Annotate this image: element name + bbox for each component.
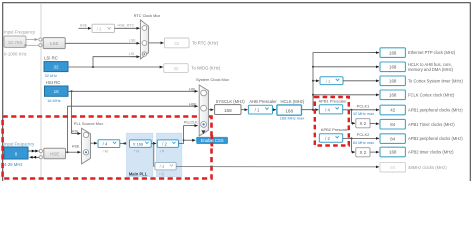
svg-text:0-1000 KHz: 0-1000 KHz xyxy=(4,51,27,56)
svg-text:APB1 peripheral clocks (MHz): APB1 peripheral clocks (MHz) xyxy=(408,108,463,113)
svg-text:AHB Prescaler: AHB Prescaler xyxy=(249,99,277,104)
svg-text:32: 32 xyxy=(174,41,179,46)
svg-text:/ 4: / 4 xyxy=(103,141,108,146)
svg-text:PLL Source Mux: PLL Source Mux xyxy=(74,121,103,126)
svg-text:RTC Clock Mux: RTC Clock Mux xyxy=(134,14,161,18)
svg-text:168 MHz max: 168 MHz max xyxy=(280,116,305,121)
svg-text:HSE: HSE xyxy=(189,102,197,106)
svg-text:X 2: X 2 xyxy=(360,121,367,126)
svg-text:APB2 timer clocks (MHz): APB2 timer clocks (MHz) xyxy=(408,150,454,155)
svg-text:168: 168 xyxy=(389,65,397,70)
svg-text:/ 2: / 2 xyxy=(162,141,167,146)
svg-text:System Clock Mux: System Clock Mux xyxy=(196,77,229,82)
svg-text:SYSCLK (MHz): SYSCLK (MHz) xyxy=(216,99,246,104)
svg-text:X 2: X 2 xyxy=(360,150,367,155)
svg-text:APB2 Prescaler: APB2 Prescaler xyxy=(321,127,350,132)
svg-text:HSI: HSI xyxy=(189,87,195,91)
svg-text:/ 2: / 2 xyxy=(325,136,330,141)
svg-text:84: 84 xyxy=(390,122,395,127)
svg-text:42: 42 xyxy=(390,108,395,113)
svg-text:PCLK2: PCLK2 xyxy=(357,132,370,137)
svg-text:LSE: LSE xyxy=(129,39,137,43)
svg-text:32.768: 32.768 xyxy=(8,40,22,45)
svg-text:16: 16 xyxy=(54,89,60,94)
svg-text:HCLK (MHz): HCLK (MHz) xyxy=(281,99,305,104)
svg-text:/ P: / P xyxy=(160,150,165,154)
svg-text:HSE_RTC: HSE_RTC xyxy=(118,24,135,28)
svg-text:168: 168 xyxy=(389,50,397,55)
svg-text:4-26 MHz: 4-26 MHz xyxy=(4,162,23,167)
svg-text:HSE: HSE xyxy=(50,151,59,156)
svg-text:84: 84 xyxy=(390,136,395,141)
svg-text:HSI RC: HSI RC xyxy=(46,80,61,85)
svg-text:84: 84 xyxy=(390,165,395,170)
svg-text:16 MHz: 16 MHz xyxy=(47,98,61,103)
svg-text:84 MHz max: 84 MHz max xyxy=(353,141,374,145)
svg-text:HSI: HSI xyxy=(72,129,78,133)
svg-text:PCLK1: PCLK1 xyxy=(357,103,370,108)
svg-text:168: 168 xyxy=(389,93,397,98)
svg-text:/ Q: / Q xyxy=(159,172,164,176)
svg-text:168: 168 xyxy=(285,108,293,113)
svg-text:32 kHz: 32 kHz xyxy=(45,73,57,78)
svg-text:/ 1: / 1 xyxy=(255,108,260,113)
svg-text:Main PLL: Main PLL xyxy=(129,171,148,176)
svg-text:PLLCLK: PLLCLK xyxy=(184,120,198,124)
svg-text:/ M: / M xyxy=(103,150,108,154)
svg-text:Input Frequency: Input Frequency xyxy=(4,30,36,35)
svg-text:32: 32 xyxy=(173,66,178,71)
svg-text:To Cortex System timer (MHz): To Cortex System timer (MHz) xyxy=(408,78,463,83)
svg-text:168: 168 xyxy=(389,79,397,84)
svg-text:* N: * N xyxy=(134,150,140,154)
svg-text:LSI RC: LSI RC xyxy=(44,56,58,61)
svg-text:42 MHz max: 42 MHz max xyxy=(353,112,374,116)
svg-text:LSE: LSE xyxy=(50,41,59,46)
svg-text:/ 4: / 4 xyxy=(325,108,330,113)
svg-text:APB1 Timer clocks (MHz): APB1 Timer clocks (MHz) xyxy=(408,122,455,127)
svg-text:/ 4: / 4 xyxy=(160,164,165,169)
svg-text:48MHz clocks (MHz): 48MHz clocks (MHz) xyxy=(408,165,447,170)
svg-text:X 168: X 168 xyxy=(133,141,143,146)
svg-text:APB2 peripheral clocks (MHz): APB2 peripheral clocks (MHz) xyxy=(408,136,463,141)
svg-text:168: 168 xyxy=(224,108,232,113)
svg-text:/ 2: / 2 xyxy=(97,26,102,31)
svg-text:32: 32 xyxy=(53,65,59,70)
svg-text:APB1 Prescaler: APB1 Prescaler xyxy=(319,98,348,103)
svg-text:Ethernet PTP clock (MHz): Ethernet PTP clock (MHz) xyxy=(408,50,456,55)
svg-text:HSE: HSE xyxy=(72,145,80,149)
svg-text:To RTC (KHz): To RTC (KHz) xyxy=(192,41,219,46)
svg-text:FCLK Cortex clock (MHz): FCLK Cortex clock (MHz) xyxy=(408,92,455,97)
svg-text:/ 1: / 1 xyxy=(326,79,331,84)
svg-text:LSI: LSI xyxy=(129,52,135,56)
svg-text:HSE: HSE xyxy=(80,23,88,27)
svg-text:168: 168 xyxy=(389,150,397,155)
svg-text:To IWDG (KHz): To IWDG (KHz) xyxy=(191,66,220,71)
svg-text:memory and DMA (MHz): memory and DMA (MHz) xyxy=(408,67,454,72)
svg-text:Input Frequency: Input Frequency xyxy=(4,142,35,147)
